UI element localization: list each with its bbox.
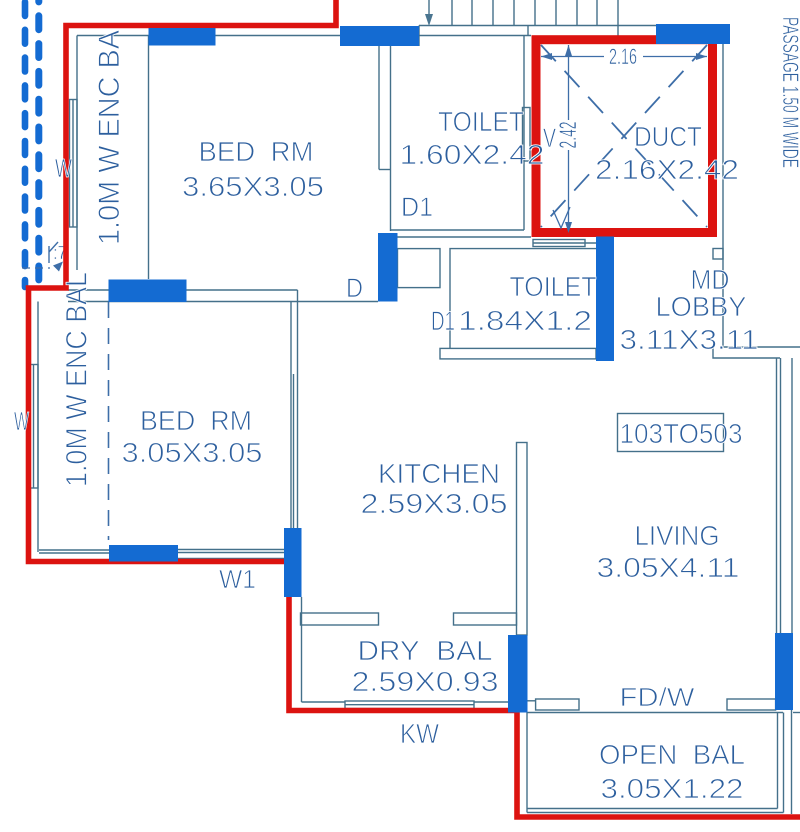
window symbol W balcony2 xyxy=(29,365,38,489)
dashed duct diagonal 1 xyxy=(541,45,707,227)
wire living right wall inner xyxy=(791,358,793,633)
wire living bottom left xyxy=(528,700,536,702)
wire open balcony right outer xyxy=(783,713,785,813)
kitchen platform right xyxy=(454,613,517,625)
svg-text:V: V xyxy=(543,123,556,153)
svg-text:DRY BAL: DRY BAL xyxy=(358,635,493,666)
wire bed2 right wall inner xyxy=(290,302,292,529)
box 103TO503 xyxy=(618,414,724,452)
wire toilet1 bottom wall xyxy=(391,229,525,231)
wire stair treads xyxy=(452,0,597,26)
svg-text:D: D xyxy=(346,273,363,303)
wire V symbol xyxy=(553,207,570,228)
svg-text:DUCT: DUCT xyxy=(634,121,702,152)
wire balcony2 inner wall xyxy=(37,302,39,553)
svg-text:BED RM: BED RM xyxy=(199,136,314,167)
wire open balcony bottom outer xyxy=(527,812,784,814)
window rect bed2 bottom xyxy=(109,545,178,562)
door jamb rect lobby xyxy=(713,249,723,260)
svg-text:3.11X3.11: 3.11X3.11 xyxy=(620,324,759,355)
step rect right of FD/W xyxy=(727,699,776,710)
svg-text:TOILET: TOILET xyxy=(510,271,597,302)
wire L7 flag xyxy=(49,242,58,263)
wire living right wall outer xyxy=(780,358,782,633)
wire open balcony bottom inner xyxy=(527,808,778,810)
svg-text:W: W xyxy=(55,153,72,183)
arrow L7 xyxy=(53,262,63,272)
wire open balcony top xyxy=(527,712,783,714)
svg-text:3.05X3.05: 3.05X3.05 xyxy=(122,437,263,468)
window rect bed1 top xyxy=(149,28,216,46)
svg-text:LIVING: LIVING xyxy=(635,520,720,551)
svg-text:1.60X2.42: 1.60X2.42 xyxy=(400,139,545,170)
svg-text:2.16: 2.16 xyxy=(609,44,637,69)
wire toilet2 top line xyxy=(397,236,531,238)
arrow dim 2.16 right xyxy=(696,53,707,60)
wall toilet2 bottom strip xyxy=(440,348,596,359)
wire next unit wall xyxy=(791,710,793,814)
wire bed2 bottom wall left xyxy=(39,550,109,553)
wire toilet1 left wall outer xyxy=(378,46,380,170)
window symbol W balcony1 xyxy=(70,100,78,228)
svg-text:103TO503: 103TO503 xyxy=(620,418,743,449)
wire stair bottom line xyxy=(419,25,656,27)
svg-text:2.42: 2.42 xyxy=(555,122,582,149)
window sill drybal xyxy=(345,701,474,709)
wire drybal bottom right xyxy=(474,701,508,703)
wire toilet1 left wall inner xyxy=(390,46,392,231)
wire vent below duct mid xyxy=(533,242,596,244)
wire drybal bottom left xyxy=(302,701,346,703)
wire upper unit wall xyxy=(617,0,619,36)
svg-text:3.05X1.22: 3.05X1.22 xyxy=(601,773,744,804)
dashed partition bed2/balcony xyxy=(108,302,110,540)
wire open balcony right inner xyxy=(777,713,779,809)
svg-text:1.84X1.2: 1.84X1.2 xyxy=(458,305,592,336)
wall rect stairs left xyxy=(340,26,419,46)
wire kitchen left wall xyxy=(301,597,303,702)
vent window below duct xyxy=(533,240,585,247)
arrow dim 2.42 bottom xyxy=(565,222,572,233)
wire dim 2.42 line xyxy=(568,45,570,231)
wall rect lobby left xyxy=(596,237,614,362)
wall rect kitchen left xyxy=(284,528,302,597)
wall rect living bottom left xyxy=(508,635,528,713)
wire lobby right wall xyxy=(722,40,724,347)
dashed boundary line outer xyxy=(22,2,29,287)
svg-text:D1: D1 xyxy=(401,192,433,222)
window rect bed1/bed2 xyxy=(109,280,187,303)
wall rect top right xyxy=(656,24,730,44)
wire balcony1 inner wall xyxy=(76,36,78,271)
wire living right wall outer2 xyxy=(776,358,778,633)
wire sill drybal mid xyxy=(345,704,474,706)
step rect left of FD/W xyxy=(536,699,579,710)
door jamb rect D1 toilet2 xyxy=(398,249,441,288)
svg-text:KITCHEN: KITCHEN xyxy=(378,458,500,489)
arrow dim 2.42 top xyxy=(565,45,572,56)
wire window W2 mid line xyxy=(33,365,35,489)
wire toilet1 right wall xyxy=(523,36,525,231)
wire open balcony top right xyxy=(793,712,800,714)
svg-text:1.0M W ENC BAL: 1.0M W ENC BAL xyxy=(60,272,93,487)
wire bed2 right wall window line xyxy=(293,374,295,528)
svg-text:2.59X0.93: 2.59X0.93 xyxy=(352,666,499,697)
wire open balcony left xyxy=(526,713,528,813)
wire top wall line xyxy=(77,35,531,37)
wire bed1/bed2 divider upper xyxy=(68,289,298,291)
wire dim 2.16 line xyxy=(541,56,707,58)
kitchen platform left xyxy=(301,613,379,625)
wire toilet1 left wall cap xyxy=(379,169,391,171)
wall kitchen-living divider xyxy=(517,443,528,636)
wire window W1 mid line xyxy=(72,100,74,228)
wall rect living bottom right xyxy=(775,633,793,710)
svg-text:PASSAGE 1.50 M WIDE: PASSAGE 1.50 M WIDE xyxy=(778,17,800,168)
svg-text:2.16X2.42: 2.16X2.42 xyxy=(595,154,739,185)
svg-text:W1: W1 xyxy=(219,564,256,594)
dashed duct diagonal 2 xyxy=(541,45,707,227)
dashed leader L7 xyxy=(22,267,50,269)
svg-text:OPEN BAL: OPEN BAL xyxy=(599,739,745,770)
svg-text:TOILET: TOILET xyxy=(438,106,524,137)
red duct outline xyxy=(536,40,713,233)
wire lobby bottom jog xyxy=(713,347,780,358)
svg-text:LOBBY: LOBBY xyxy=(656,291,747,322)
wire bed2 right wall outer xyxy=(297,290,299,528)
wire bed1/bed2 divider lower xyxy=(68,301,378,303)
dashed boundary line inner xyxy=(35,0,42,292)
wire stair direction line xyxy=(428,0,430,18)
svg-text:3.65X3.05: 3.65X3.05 xyxy=(182,171,324,202)
wire stairwell left jamb xyxy=(418,26,420,47)
svg-text:W: W xyxy=(14,406,29,436)
vent window left of duct xyxy=(523,108,531,162)
arrow dim 2.16 left xyxy=(541,53,552,60)
wire stairwell right jamb xyxy=(527,26,529,36)
svg-text:D1: D1 xyxy=(431,306,455,336)
wire bed2 bottom sill xyxy=(178,550,284,559)
svg-text:2.59X3.05: 2.59X3.05 xyxy=(361,488,508,519)
svg-text:BED RM: BED RM xyxy=(140,405,252,436)
svg-text:KW: KW xyxy=(400,718,439,749)
svg-text:3.05X4.11: 3.05X4.11 xyxy=(597,552,740,583)
wire bed1 left wall xyxy=(148,36,150,280)
stair arrow head xyxy=(425,14,433,26)
wire lobby bottom wall right xyxy=(724,346,800,348)
svg-text:FD/W: FD/W xyxy=(620,682,696,712)
wire toilet2 box xyxy=(450,249,596,349)
svg-text:1.0M W ENC BA: 1.0M W ENC BA xyxy=(93,30,126,245)
door rect D bed2 xyxy=(378,233,398,302)
